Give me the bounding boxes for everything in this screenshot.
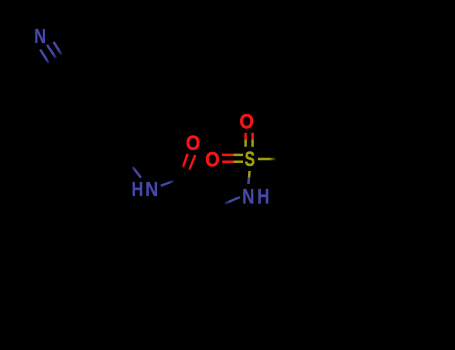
svg-text:N: N: [145, 179, 158, 201]
svg-text:O: O: [240, 110, 254, 134]
svg-text:H: H: [132, 177, 144, 200]
svg-text:N: N: [34, 24, 46, 47]
svg-text:N: N: [242, 186, 254, 209]
svg-text:S: S: [245, 147, 255, 171]
svg-text:O: O: [205, 148, 219, 172]
svg-text:O: O: [186, 132, 200, 156]
svg-text:H: H: [257, 186, 269, 209]
